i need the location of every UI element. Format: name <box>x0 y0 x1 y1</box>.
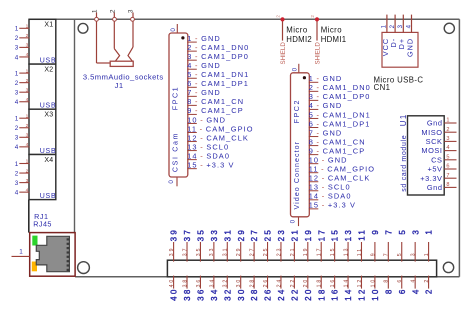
svg-text:1: 1 <box>19 249 23 256</box>
svg-text:FPC1: FPC1 <box>171 86 180 110</box>
svg-text:17: 17 <box>317 228 326 241</box>
svg-text:3: 3 <box>26 133 29 139</box>
svg-text:28: 28 <box>250 278 256 288</box>
svg-text:5 - CAM1_DN1: 5 - CAM1_DN1 <box>187 70 249 79</box>
svg-text:2: 2 <box>15 125 19 132</box>
svg-text:SCK: SCK <box>426 137 443 146</box>
svg-text:3: 3 <box>15 90 19 97</box>
svg-text:18: 18 <box>317 288 326 301</box>
svg-text:1: 1 <box>26 24 29 30</box>
svg-text:38: 38 <box>183 288 192 301</box>
svg-text:17: 17 <box>317 247 323 257</box>
svg-text:37: 37 <box>182 247 188 257</box>
svg-text:0: 0 <box>291 67 298 71</box>
svg-text:2: 2 <box>15 80 19 87</box>
svg-text:2 - CAM1_DN0: 2 - CAM1_DN0 <box>187 43 249 52</box>
svg-text:32: 32 <box>223 288 232 301</box>
svg-text:12 - CAM_CLK: 12 - CAM_CLK <box>187 133 249 142</box>
svg-text:35: 35 <box>196 247 202 257</box>
svg-text:1: 1 <box>15 161 19 168</box>
svg-text:+3.3V: +3.3V <box>420 174 442 183</box>
svg-text:38: 38 <box>182 278 188 288</box>
svg-text:2: 2 <box>26 78 29 84</box>
svg-text:10: 10 <box>371 288 380 301</box>
svg-text:X2: X2 <box>44 66 53 73</box>
svg-text:J1: J1 <box>115 81 124 90</box>
svg-text:4: 4 <box>411 288 420 295</box>
svg-text:32: 32 <box>223 278 229 288</box>
svg-text:20: 20 <box>304 288 313 301</box>
svg-text:1: 1 <box>26 68 29 74</box>
svg-text:4 - GND: 4 - GND <box>309 101 343 110</box>
svg-text:3: 3 <box>26 87 29 93</box>
svg-text:22: 22 <box>290 288 299 301</box>
svg-text:12: 12 <box>357 278 363 288</box>
svg-text:36: 36 <box>196 278 202 288</box>
svg-text:39: 39 <box>169 247 175 257</box>
svg-text:22: 22 <box>290 278 296 288</box>
svg-text:RJ45: RJ45 <box>33 220 52 229</box>
svg-text:7: 7 <box>384 228 393 235</box>
svg-text:10 - GND: 10 - GND <box>187 115 226 124</box>
svg-text:13: 13 <box>344 228 353 241</box>
svg-text:Video Connector: Video Connector <box>294 141 301 210</box>
svg-text:20: 20 <box>303 278 309 288</box>
svg-text:6: 6 <box>398 288 407 295</box>
svg-text:CN1: CN1 <box>374 83 391 92</box>
svg-text:1: 1 <box>15 70 19 77</box>
svg-text:7: 7 <box>446 173 449 179</box>
svg-text:CS: CS <box>431 155 442 164</box>
svg-text:1 - GND: 1 - GND <box>309 74 343 83</box>
svg-text:4: 4 <box>15 189 19 196</box>
svg-text:34: 34 <box>209 278 215 288</box>
svg-text:7 - GND: 7 - GND <box>309 128 343 137</box>
svg-text:2: 2 <box>26 123 29 129</box>
svg-text:3: 3 <box>411 228 420 235</box>
svg-text:31: 31 <box>223 228 232 241</box>
svg-text:16: 16 <box>330 278 336 288</box>
svg-text:4: 4 <box>15 54 19 61</box>
svg-text:1: 1 <box>446 118 449 124</box>
svg-text:9 - CAM1_CP: 9 - CAM1_CP <box>187 106 244 115</box>
svg-text:34: 34 <box>210 288 219 301</box>
svg-text:3 - CAM1_DP0: 3 - CAM1_DP0 <box>187 52 249 61</box>
svg-text:4: 4 <box>446 145 449 151</box>
svg-text:Gnd: Gnd <box>427 119 443 128</box>
svg-text:40: 40 <box>169 278 175 288</box>
svg-text:HDMI1: HDMI1 <box>321 35 347 44</box>
svg-text:13 - SCL0: 13 - SCL0 <box>187 142 229 151</box>
svg-text:39: 39 <box>170 228 179 241</box>
svg-text:29: 29 <box>237 228 246 241</box>
svg-text:5: 5 <box>398 228 407 235</box>
svg-text:2: 2 <box>424 278 430 283</box>
svg-text:3: 3 <box>15 135 19 142</box>
svg-text:9 - CAM1_CP: 9 - CAM1_CP <box>309 146 366 155</box>
svg-text:U1: U1 <box>399 113 408 126</box>
svg-text:X3: X3 <box>44 112 53 119</box>
svg-text:25: 25 <box>264 228 273 241</box>
svg-text:11 - CAM_GPIO: 11 - CAM_GPIO <box>309 165 375 174</box>
svg-text:27: 27 <box>250 247 256 257</box>
svg-text:14 - SDA0: 14 - SDA0 <box>309 192 352 201</box>
svg-text:36: 36 <box>197 288 206 301</box>
svg-text:2: 2 <box>425 288 434 295</box>
svg-text:33: 33 <box>210 228 219 241</box>
svg-text:21: 21 <box>290 228 299 241</box>
svg-text:30: 30 <box>236 278 242 288</box>
svg-text:26: 26 <box>263 278 269 288</box>
svg-text:2 - CAM1_DN0: 2 - CAM1_DN0 <box>309 83 371 92</box>
svg-text:9: 9 <box>371 228 380 235</box>
svg-text:13: 13 <box>343 247 349 257</box>
svg-text:21: 21 <box>290 247 296 257</box>
svg-text:sd card module: sd card module <box>401 135 408 192</box>
svg-text:23: 23 <box>277 228 286 241</box>
svg-text:X1: X1 <box>44 22 53 29</box>
svg-text:15 - +3.3 V: 15 - +3.3 V <box>309 201 356 210</box>
svg-text:3: 3 <box>15 45 19 52</box>
svg-text:3: 3 <box>127 9 134 13</box>
svg-text:12: 12 <box>358 288 367 301</box>
svg-text:6: 6 <box>446 164 449 170</box>
svg-text:19: 19 <box>303 247 309 257</box>
svg-text:2: 2 <box>446 127 449 133</box>
svg-text:3: 3 <box>15 180 19 187</box>
svg-text:35: 35 <box>197 228 206 241</box>
svg-text:3: 3 <box>411 251 417 256</box>
svg-text:4: 4 <box>26 187 29 193</box>
svg-text:24: 24 <box>277 288 286 301</box>
svg-text:4: 4 <box>411 278 417 283</box>
svg-text:5 - CAM1_DN1: 5 - CAM1_DN1 <box>309 110 371 119</box>
svg-text:37: 37 <box>183 228 192 241</box>
svg-text:HDMI2: HDMI2 <box>286 35 312 44</box>
svg-text:MOSI: MOSI <box>421 146 442 155</box>
svg-text:6 - CAM1_DP1: 6 - CAM1_DP1 <box>187 79 249 88</box>
svg-text:X4: X4 <box>44 157 53 164</box>
svg-text:2: 2 <box>109 9 116 13</box>
svg-text:2: 2 <box>26 168 29 174</box>
svg-text:27: 27 <box>250 228 259 241</box>
svg-text:29: 29 <box>236 247 242 257</box>
svg-text:4: 4 <box>26 97 29 103</box>
svg-text:Micro: Micro <box>321 26 343 35</box>
svg-text:3: 3 <box>26 178 29 184</box>
svg-text:13 - SCL0: 13 - SCL0 <box>309 183 351 192</box>
svg-text:SHIELD: SHIELD <box>280 42 287 65</box>
svg-text:33: 33 <box>209 247 215 257</box>
svg-text:4: 4 <box>26 142 29 148</box>
svg-text:1: 1 <box>26 159 29 165</box>
svg-text:4: 4 <box>15 144 19 151</box>
svg-text:23: 23 <box>276 247 282 257</box>
svg-text:15: 15 <box>331 228 340 241</box>
svg-text:8: 8 <box>384 278 390 283</box>
svg-text:6 - CAM1_DP1: 6 - CAM1_DP1 <box>309 119 371 128</box>
svg-text:1: 1 <box>424 251 430 256</box>
svg-text:4: 4 <box>15 99 19 106</box>
svg-text:1: 1 <box>15 26 19 33</box>
svg-text:18: 18 <box>317 278 323 288</box>
svg-text:8: 8 <box>446 182 449 188</box>
svg-text:14: 14 <box>343 278 349 288</box>
svg-text:Micro: Micro <box>286 26 308 35</box>
svg-text:FPC2: FPC2 <box>292 99 301 123</box>
svg-text:0: 0 <box>290 219 297 223</box>
svg-text:28: 28 <box>250 288 259 301</box>
svg-text:10 - GND: 10 - GND <box>309 155 348 164</box>
svg-text:MISO: MISO <box>421 128 442 137</box>
svg-text:2: 2 <box>15 170 19 177</box>
svg-text:4: 4 <box>26 52 29 58</box>
svg-text:30: 30 <box>237 288 246 301</box>
svg-text:5: 5 <box>446 154 449 160</box>
svg-text:CSI Cam: CSI Cam <box>172 132 179 172</box>
svg-text:USB: USB <box>40 193 57 200</box>
svg-text:12 - CAM_CLK: 12 - CAM_CLK <box>309 174 371 183</box>
svg-text:0: 0 <box>168 180 175 184</box>
svg-text:1: 1 <box>15 116 19 123</box>
svg-text:3: 3 <box>26 43 29 49</box>
svg-text:14 - SDA0: 14 - SDA0 <box>187 151 230 160</box>
svg-text:11 - CAM_GPIO: 11 - CAM_GPIO <box>187 124 253 133</box>
svg-text:0: 0 <box>170 28 177 32</box>
svg-text:14: 14 <box>344 288 353 301</box>
svg-text:2: 2 <box>15 35 19 42</box>
svg-text:SHIELD: SHIELD <box>315 42 322 65</box>
svg-text:9: 9 <box>370 251 376 256</box>
svg-text:16: 16 <box>331 288 340 301</box>
svg-text:5: 5 <box>397 251 403 256</box>
svg-text:24: 24 <box>276 278 282 288</box>
svg-text:1 - GND: 1 - GND <box>187 34 221 43</box>
svg-text:GND: GND <box>405 38 414 57</box>
svg-text:2: 2 <box>26 33 29 39</box>
svg-text:19: 19 <box>304 228 313 241</box>
svg-text:7: 7 <box>384 251 390 256</box>
svg-text:25: 25 <box>263 247 269 257</box>
svg-text:6: 6 <box>397 278 403 283</box>
svg-text:+5V: +5V <box>427 165 442 174</box>
svg-text:26: 26 <box>264 288 273 301</box>
svg-text:1: 1 <box>425 228 434 235</box>
svg-text:10: 10 <box>370 278 376 288</box>
svg-text:40: 40 <box>170 288 179 301</box>
svg-text:31: 31 <box>223 247 229 257</box>
svg-text:3 - CAM1_DP0: 3 - CAM1_DP0 <box>309 92 371 101</box>
svg-text:3: 3 <box>446 136 449 142</box>
svg-text:11: 11 <box>358 228 367 241</box>
svg-text:15 - +3.3 V: 15 - +3.3 V <box>187 160 234 169</box>
svg-text:8 - CAM1_CN: 8 - CAM1_CN <box>187 97 244 106</box>
svg-text:7 - GND: 7 - GND <box>187 88 221 97</box>
svg-text:Gnd: Gnd <box>427 183 443 192</box>
svg-text:15: 15 <box>330 247 336 257</box>
svg-text:4 - GND: 4 - GND <box>187 61 221 70</box>
svg-text:8: 8 <box>384 288 393 295</box>
svg-text:1: 1 <box>26 113 29 119</box>
svg-text:8 - CAM1_CN: 8 - CAM1_CN <box>309 137 366 146</box>
svg-text:11: 11 <box>357 247 363 256</box>
svg-text:1: 1 <box>91 9 98 13</box>
